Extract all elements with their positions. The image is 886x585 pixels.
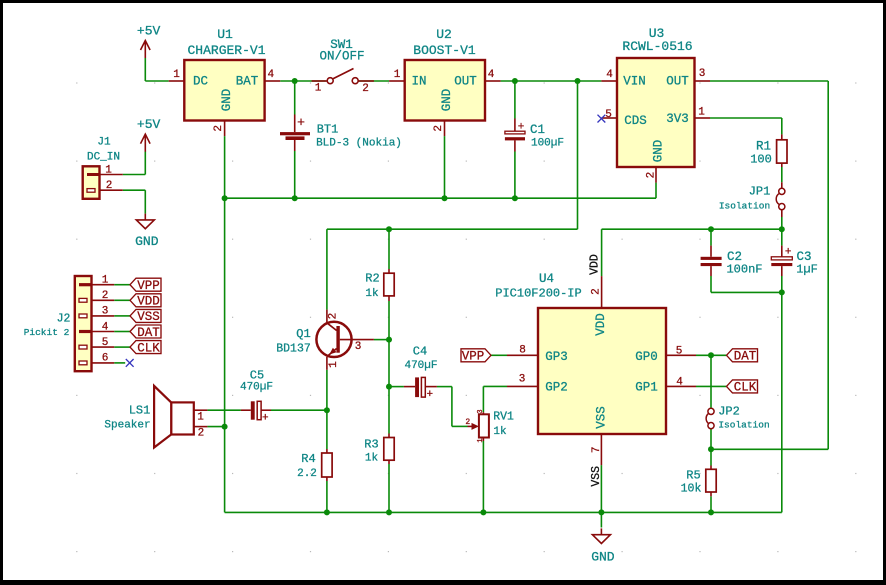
svg-text:100nF: 100nF	[726, 263, 762, 277]
svg-text:OUT: OUT	[454, 75, 477, 89]
svg-text:2: 2	[198, 427, 205, 439]
junction	[222, 424, 228, 430]
label DAT (J2)	[130, 325, 161, 338]
U2 pin 2	[433, 121, 445, 137]
svg-text:470µF: 470µF	[240, 382, 273, 394]
wire	[114, 331, 130, 333]
wire	[280, 80, 326, 82]
svg-text:3: 3	[477, 409, 485, 413]
J1 pin 1	[100, 164, 123, 176]
label VPP (J2)	[130, 278, 161, 291]
svg-text:2: 2	[590, 288, 602, 295]
jumper JP1 Isolation	[719, 182, 785, 217]
resistor R5	[681, 466, 717, 497]
svg-text:5: 5	[676, 345, 683, 357]
svg-text:100: 100	[750, 153, 772, 167]
svg-text:1k: 1k	[493, 426, 507, 438]
wire	[388, 229, 390, 269]
transistor Q1 BD137	[276, 310, 374, 370]
wire	[482, 441, 484, 512]
svg-text:R1: R1	[756, 139, 771, 153]
svg-text:5: 5	[605, 109, 612, 121]
capacitor C4	[404, 345, 438, 401]
svg-text:U4: U4	[539, 272, 554, 286]
svg-text:+5V: +5V	[137, 117, 161, 132]
ground (bottom)	[591, 528, 615, 564]
J2 pin 6	[92, 353, 115, 365]
junction	[512, 195, 518, 201]
resistor R2	[365, 269, 394, 301]
wire	[781, 167, 783, 182]
capacitor C3	[771, 246, 818, 277]
svg-text:+: +	[262, 412, 269, 424]
junction	[386, 337, 392, 343]
wire	[271, 409, 327, 411]
svg-text:C5: C5	[250, 369, 264, 383]
J2 pin 5	[92, 337, 115, 349]
wire	[781, 276, 783, 512]
svg-text:2: 2	[102, 290, 109, 302]
label DAT (GP0)	[727, 349, 758, 362]
svg-text:RCWL-0516: RCWL-0516	[622, 39, 692, 54]
J2 pin 1	[92, 275, 115, 287]
svg-text:+: +	[426, 389, 433, 401]
svg-text:JP2: JP2	[718, 405, 740, 419]
junction	[292, 195, 298, 201]
svg-text:C4: C4	[413, 345, 427, 359]
U3 pin 4	[601, 69, 617, 81]
label CLK (GP1)	[727, 380, 758, 393]
svg-text:Q1: Q1	[296, 327, 310, 341]
svg-text:R4: R4	[301, 452, 315, 466]
svg-text:2.2: 2.2	[297, 468, 317, 480]
junction	[575, 78, 581, 84]
svg-text:3: 3	[699, 68, 706, 80]
svg-text:VSS: VSS	[137, 310, 160, 324]
svg-text:RV1: RV1	[493, 411, 514, 424]
svg-text:OUT: OUT	[666, 75, 689, 89]
wire	[600, 465, 602, 512]
svg-text:GND: GND	[651, 140, 665, 163]
svg-text:J2: J2	[57, 313, 71, 326]
U1 pin 4	[265, 69, 281, 81]
svg-text:VPP: VPP	[462, 350, 485, 364]
svg-text:GND: GND	[135, 234, 159, 249]
wire	[224, 136, 226, 512]
svg-text:1: 1	[102, 275, 109, 287]
J2 pin 4	[92, 321, 115, 333]
U3 pin 2	[645, 167, 657, 183]
svg-text:GND: GND	[220, 89, 234, 112]
junction	[292, 78, 298, 84]
svg-text:Pickit 2: Pickit 2	[24, 327, 70, 338]
svg-text:BT1: BT1	[317, 123, 339, 137]
svg-text:VSS: VSS	[590, 466, 603, 487]
U4 pin 4 GP1	[666, 376, 696, 388]
resistor R3	[364, 434, 394, 465]
wire	[444, 136, 446, 198]
U1 pin 2	[213, 121, 225, 137]
junction	[512, 78, 518, 84]
U3 pin 5	[601, 109, 617, 121]
svg-text:BLD-3 (Nokia): BLD-3 (Nokia)	[316, 137, 402, 149]
wire	[602, 228, 782, 230]
svg-text:3V3: 3V3	[666, 112, 689, 126]
wire	[483, 385, 507, 387]
svg-text:GP2: GP2	[545, 380, 568, 394]
no-connect X on CDS	[598, 115, 606, 123]
label CLK (J2)	[130, 341, 161, 354]
svg-text:DC: DC	[193, 75, 208, 89]
svg-text:2: 2	[433, 125, 445, 132]
wire	[710, 429, 712, 450]
wire	[600, 512, 602, 527]
svg-text:CLK: CLK	[734, 381, 757, 395]
U1 pin 1	[169, 69, 185, 81]
wire	[696, 354, 727, 356]
svg-text:DAT: DAT	[734, 350, 757, 364]
switch SW1	[312, 38, 374, 95]
svg-text:5: 5	[102, 337, 109, 349]
wire	[710, 229, 712, 245]
svg-text:4: 4	[676, 376, 683, 388]
svg-text:R3: R3	[364, 438, 378, 452]
svg-text:2: 2	[465, 418, 470, 427]
junction	[386, 226, 392, 232]
wire	[114, 315, 130, 317]
no-connect X on J2 pin 6	[126, 359, 134, 367]
U4 pin 5 GP0	[666, 345, 696, 357]
label VPP (GP3)	[461, 349, 491, 362]
svg-text:7: 7	[591, 446, 603, 453]
wire	[696, 385, 727, 387]
speaker LS1	[104, 386, 193, 448]
svg-text:100µF: 100µF	[531, 137, 564, 149]
svg-text:GP0: GP0	[635, 350, 658, 364]
svg-text:CHARGER-V1: CHARGER-V1	[187, 43, 265, 58]
wire	[294, 81, 296, 115]
svg-text:BAT: BAT	[236, 75, 259, 89]
junction	[779, 226, 785, 232]
svg-text:3: 3	[102, 306, 109, 318]
svg-text:+5V: +5V	[137, 23, 161, 38]
svg-text:2: 2	[213, 125, 225, 132]
svg-text:6: 6	[102, 353, 109, 365]
svg-text:10k: 10k	[681, 483, 702, 496]
wire	[326, 370, 328, 449]
label VDD (J2)	[130, 294, 161, 307]
radar module U3 RCWL-0516	[617, 26, 695, 167]
grid dots (decorative)	[76, 82, 856, 552]
U2 pin 4	[485, 69, 501, 81]
wire	[710, 276, 712, 292]
svg-text:GP3: GP3	[545, 350, 568, 364]
wire	[225, 197, 656, 199]
charger module U1	[184, 27, 265, 121]
wire	[294, 151, 296, 198]
boost module U2	[405, 27, 485, 121]
svg-text:1: 1	[477, 438, 485, 442]
junction	[324, 407, 330, 413]
svg-text:ON/OFF: ON/OFF	[319, 49, 364, 63]
wire	[437, 386, 452, 388]
wire	[207, 426, 224, 428]
svg-text:470µF: 470µF	[404, 360, 437, 372]
svg-text:2: 2	[362, 83, 369, 95]
svg-text:GND: GND	[591, 550, 615, 565]
wire	[514, 81, 516, 119]
microcontroller U4 PIC10F200-IP	[495, 272, 666, 434]
wire	[389, 386, 404, 388]
potentiometer RV1	[465, 409, 514, 442]
svg-text:1k: 1k	[365, 452, 379, 464]
wire	[501, 80, 602, 82]
svg-text:4: 4	[488, 69, 495, 81]
junction	[708, 446, 714, 452]
LS1 pin 2	[194, 427, 208, 440]
svg-text:1k: 1k	[365, 288, 379, 300]
wire	[710, 117, 782, 119]
wire	[225, 511, 782, 513]
svg-text:1: 1	[315, 82, 322, 94]
svg-text:3: 3	[519, 373, 526, 385]
svg-text:4: 4	[267, 69, 274, 81]
label VSS (J2)	[130, 309, 161, 322]
svg-text:2: 2	[645, 172, 657, 179]
svg-text:IN: IN	[411, 75, 426, 89]
wire	[123, 189, 146, 191]
LS1 pin 1	[194, 410, 208, 423]
U4 pin 2 VDD	[590, 276, 602, 308]
svg-text:BOOST-V1: BOOST-V1	[413, 43, 476, 58]
capacitor C2	[701, 246, 763, 277]
svg-text:1: 1	[394, 69, 401, 81]
wire	[655, 183, 657, 199]
resistor R4	[297, 449, 332, 481]
junction	[222, 195, 228, 201]
wire	[114, 362, 125, 364]
svg-text:GND: GND	[440, 89, 454, 112]
svg-text:JP1: JP1	[749, 185, 771, 199]
power +5V (top)	[137, 23, 161, 58]
wire	[710, 449, 712, 465]
ground (J1)	[135, 214, 159, 249]
wire	[358, 80, 389, 82]
battery BT1	[280, 115, 402, 152]
svg-text:VIN: VIN	[623, 75, 646, 89]
U4 pin 8 GP3	[507, 344, 538, 356]
svg-text:VDD: VDD	[589, 254, 602, 275]
J1 pin 2	[100, 180, 123, 192]
jumper JP2 Isolation	[706, 405, 770, 431]
svg-text:VSS: VSS	[594, 406, 608, 429]
junction	[779, 289, 785, 295]
svg-text:CDS: CDS	[624, 114, 647, 128]
junction	[324, 509, 330, 515]
wire	[114, 299, 130, 301]
connector J2 Pickit 2	[24, 276, 92, 371]
U4 pin 7 VSS	[591, 434, 603, 465]
svg-text:4: 4	[102, 321, 109, 333]
svg-text:1: 1	[197, 411, 204, 423]
wire	[144, 152, 146, 175]
wire	[388, 464, 390, 512]
svg-text:1: 1	[328, 361, 340, 368]
wire	[710, 496, 712, 512]
junction	[708, 352, 714, 358]
svg-text:LS1: LS1	[129, 404, 151, 418]
svg-text:2: 2	[106, 180, 113, 192]
svg-text:CLK: CLK	[137, 341, 160, 355]
svg-text:R2: R2	[365, 271, 379, 285]
svg-text:+: +	[297, 115, 305, 130]
wire	[781, 229, 783, 245]
svg-text:VDD: VDD	[594, 313, 608, 336]
capacitor C1	[505, 119, 564, 152]
junction	[598, 509, 604, 515]
svg-text:R5: R5	[686, 469, 700, 483]
svg-text:3: 3	[355, 341, 362, 353]
wire	[491, 354, 507, 356]
svg-text:U1: U1	[217, 27, 233, 42]
wire	[144, 58, 146, 81]
wire	[326, 481, 328, 512]
svg-text:C1: C1	[530, 123, 545, 137]
svg-text:DC_IN: DC_IN	[87, 151, 120, 163]
U2 pin 1	[389, 69, 405, 81]
wire	[710, 80, 828, 82]
svg-text:2: 2	[328, 313, 340, 320]
svg-text:4: 4	[606, 69, 613, 81]
svg-text:1: 1	[105, 164, 112, 176]
junction	[386, 384, 392, 390]
svg-text:BD137: BD137	[276, 343, 311, 356]
wire	[710, 355, 712, 408]
svg-text:Speaker: Speaker	[104, 419, 150, 431]
U4 pin 3 GP2	[507, 373, 538, 386]
junction	[480, 509, 486, 515]
wire	[114, 346, 130, 348]
junction	[442, 195, 448, 201]
svg-text:DAT: DAT	[137, 326, 160, 340]
svg-text:U2: U2	[436, 27, 452, 42]
svg-text:8: 8	[519, 344, 526, 356]
U3 pin 1	[695, 106, 711, 118]
J2 pin 3	[92, 306, 115, 318]
wire	[114, 284, 130, 286]
svg-text:VDD: VDD	[137, 295, 160, 309]
svg-text:GP1: GP1	[635, 380, 658, 394]
wire	[327, 228, 578, 230]
svg-text:1: 1	[173, 69, 180, 81]
wire	[388, 301, 390, 434]
junction	[386, 509, 392, 515]
capacitor C5	[240, 369, 273, 425]
svg-text:1: 1	[698, 106, 705, 118]
svg-text:J1: J1	[97, 136, 111, 148]
svg-text:Isolation: Isolation	[718, 419, 769, 430]
resistor R1	[750, 134, 787, 167]
power +5V (J1)	[137, 117, 161, 152]
svg-text:Isolation: Isolation	[719, 200, 770, 211]
wire	[207, 409, 241, 411]
junction	[708, 226, 714, 232]
wire	[781, 217, 783, 229]
junction	[708, 509, 714, 515]
svg-text:PIC10F200-IP: PIC10F200-IP	[495, 287, 581, 301]
wire	[374, 339, 389, 341]
svg-text:VPP: VPP	[137, 279, 160, 293]
svg-text:1µF: 1µF	[796, 263, 818, 277]
connector J1 DC_IN	[83, 136, 120, 199]
J2 pin 2	[92, 290, 115, 302]
U3 pin 3	[695, 68, 711, 81]
